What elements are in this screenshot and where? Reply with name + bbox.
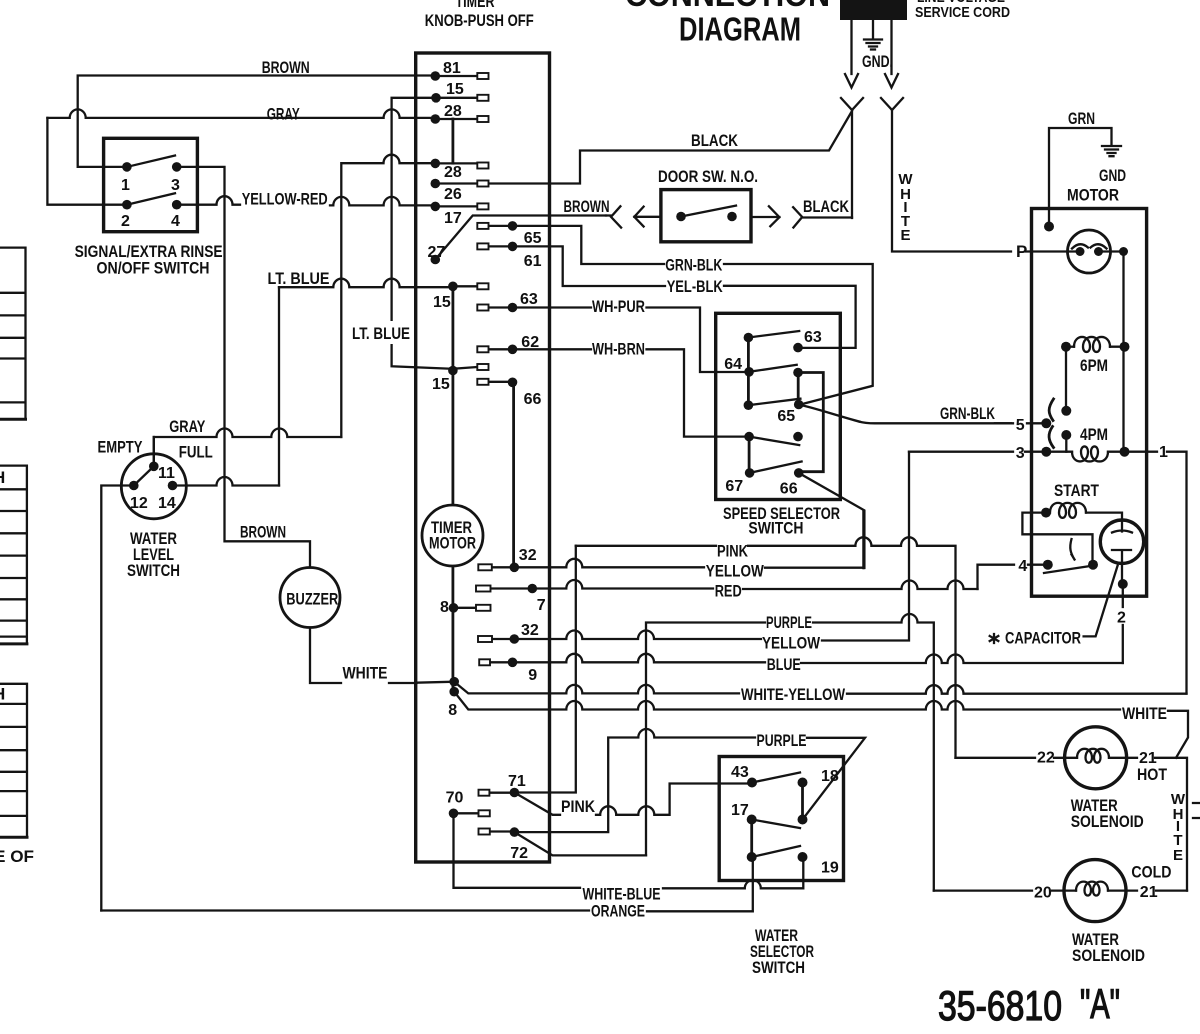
- svg-text:1: 1: [121, 177, 130, 194]
- svg-text:SWITCH: SWITCH: [127, 561, 180, 580]
- svg-text:GRN-BLK: GRN-BLK: [665, 256, 723, 275]
- svg-text:66: 66: [780, 480, 798, 497]
- svg-text:70: 70: [446, 789, 464, 806]
- svg-text:63: 63: [804, 329, 822, 346]
- svg-text:32: 32: [521, 622, 539, 639]
- svg-text:LT. BLUE: LT. BLUE: [352, 324, 410, 343]
- svg-text:"A": "A": [1080, 980, 1120, 1027]
- svg-text:63: 63: [520, 291, 538, 308]
- svg-text:6PM: 6PM: [1080, 356, 1108, 375]
- svg-text:MOTOR: MOTOR: [429, 534, 476, 553]
- svg-text:TIMER: TIMER: [456, 0, 495, 11]
- svg-text:BROWN: BROWN: [240, 523, 286, 542]
- svg-text:BUZZER: BUZZER: [286, 590, 338, 609]
- svg-text:67: 67: [725, 478, 743, 495]
- svg-text:RED: RED: [715, 582, 742, 601]
- svg-text:5: 5: [1016, 417, 1025, 434]
- svg-text:START: START: [1054, 481, 1099, 500]
- svg-text:YELLOW: YELLOW: [762, 633, 821, 652]
- svg-text:PURPLE: PURPLE: [757, 731, 807, 750]
- svg-text:SWITCH: SWITCH: [752, 958, 805, 977]
- svg-text:32: 32: [519, 547, 537, 564]
- svg-text:72: 72: [510, 845, 528, 862]
- svg-text:H: H: [0, 468, 5, 487]
- svg-text:2: 2: [121, 213, 130, 230]
- svg-text:15: 15: [432, 376, 450, 393]
- svg-text:8: 8: [440, 599, 449, 616]
- svg-text:64: 64: [724, 356, 742, 373]
- svg-text:14: 14: [158, 495, 176, 512]
- svg-text:BROWN: BROWN: [262, 58, 310, 77]
- svg-text:EMPTY: EMPTY: [98, 438, 144, 457]
- svg-text:66: 66: [524, 391, 542, 408]
- svg-text:2: 2: [1117, 610, 1126, 627]
- svg-text:WHITE: WHITE: [343, 664, 388, 683]
- svg-text:BROWN: BROWN: [564, 197, 610, 216]
- svg-text:WH-BRN: WH-BRN: [592, 340, 645, 359]
- svg-text:PINK: PINK: [717, 541, 749, 560]
- svg-text:17: 17: [731, 802, 749, 819]
- svg-text:BLACK: BLACK: [691, 131, 739, 150]
- svg-text:GND: GND: [1099, 166, 1126, 185]
- svg-text:GRN-BLK: GRN-BLK: [940, 404, 995, 423]
- svg-text:KNOB-PUSH OFF: KNOB-PUSH OFF: [425, 11, 534, 30]
- svg-text:7: 7: [537, 597, 546, 614]
- svg-text:WHITE: WHITE: [1122, 704, 1167, 723]
- svg-text:18: 18: [821, 768, 839, 785]
- svg-text:35-6810: 35-6810: [938, 982, 1062, 1029]
- svg-text:HOT: HOT: [1137, 765, 1168, 784]
- svg-text:19: 19: [821, 860, 839, 877]
- svg-text:BLUE: BLUE: [767, 655, 801, 674]
- svg-text:17: 17: [444, 210, 462, 227]
- svg-text:SWITCH: SWITCH: [748, 518, 803, 537]
- svg-text:YELLOW-RED: YELLOW-RED: [242, 190, 328, 209]
- svg-text:GRN: GRN: [1068, 109, 1095, 128]
- svg-text:3: 3: [171, 177, 180, 194]
- svg-text:81: 81: [443, 60, 461, 77]
- svg-text:E: E: [900, 227, 910, 244]
- svg-text:65: 65: [777, 408, 795, 425]
- svg-text:GRAY: GRAY: [267, 105, 300, 124]
- svg-text:WHITE-BLUE: WHITE-BLUE: [583, 885, 661, 904]
- svg-text:65: 65: [524, 230, 542, 247]
- svg-text:YELLOW: YELLOW: [706, 561, 765, 580]
- svg-text:71: 71: [508, 773, 526, 790]
- svg-text:DIAGRAM: DIAGRAM: [679, 11, 801, 48]
- svg-text:12: 12: [130, 495, 148, 512]
- svg-text:61: 61: [524, 253, 542, 270]
- svg-text:YEL-BLK: YEL-BLK: [667, 277, 724, 296]
- svg-text:ON/OFF SWITCH: ON/OFF SWITCH: [97, 259, 210, 278]
- svg-text:15: 15: [446, 81, 464, 98]
- svg-text:28: 28: [444, 103, 462, 120]
- svg-text:26: 26: [444, 186, 462, 203]
- svg-text:28: 28: [444, 164, 462, 181]
- svg-text:27: 27: [428, 244, 446, 261]
- svg-text:4: 4: [1018, 558, 1027, 575]
- svg-text:GRAY: GRAY: [169, 417, 205, 436]
- svg-text:DOOR SW. N.O.: DOOR SW. N.O.: [658, 167, 758, 186]
- svg-text:1: 1: [1159, 444, 1168, 461]
- svg-text:CAPACITOR: CAPACITOR: [1005, 629, 1081, 648]
- svg-text:4PM: 4PM: [1080, 425, 1108, 444]
- svg-text:E: E: [1173, 847, 1183, 864]
- svg-text:15: 15: [433, 294, 451, 311]
- svg-text:11: 11: [158, 465, 175, 482]
- svg-text:SOLENOID: SOLENOID: [1072, 946, 1145, 965]
- svg-text:3: 3: [1016, 445, 1025, 462]
- svg-text:WH-PUR: WH-PUR: [592, 297, 645, 316]
- svg-text:E OF: E OF: [0, 847, 34, 866]
- svg-text:GND.: GND.: [862, 52, 893, 71]
- svg-text:SERVICE CORD: SERVICE CORD: [915, 4, 1010, 21]
- svg-text:21: 21: [1140, 884, 1158, 901]
- svg-text:8: 8: [448, 702, 457, 719]
- svg-text:BLACK: BLACK: [803, 197, 850, 216]
- svg-text:PINK: PINK: [561, 797, 596, 816]
- svg-text:22: 22: [1037, 750, 1055, 767]
- svg-text:4: 4: [171, 213, 180, 230]
- svg-text:MOTOR: MOTOR: [1067, 186, 1119, 205]
- svg-text:9: 9: [528, 667, 537, 684]
- svg-text:FULL: FULL: [179, 443, 213, 462]
- svg-text:P: P: [1016, 242, 1027, 261]
- svg-text:LT. BLUE: LT. BLUE: [268, 269, 330, 288]
- svg-text:43: 43: [731, 764, 749, 781]
- svg-text:H: H: [0, 685, 5, 704]
- svg-text:20: 20: [1034, 885, 1052, 902]
- svg-text:PURPLE: PURPLE: [766, 613, 812, 632]
- svg-text:COLD: COLD: [1131, 863, 1171, 882]
- svg-text:ORANGE: ORANGE: [591, 902, 645, 921]
- svg-text:WHITE-YELLOW: WHITE-YELLOW: [741, 685, 846, 704]
- svg-text:SOLENOID: SOLENOID: [1071, 812, 1144, 831]
